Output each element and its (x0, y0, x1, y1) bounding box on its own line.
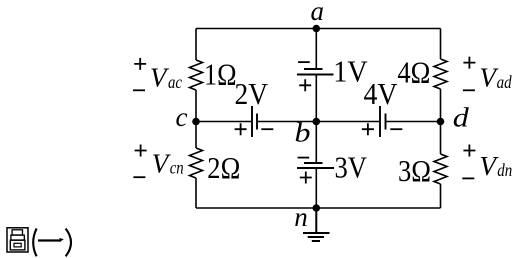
svg-text:d: d (453, 103, 470, 133)
wire c to 2V (196, 121, 252, 123)
wire right bottom (440, 184, 442, 208)
svg-text:dn: dn (497, 160, 512, 180)
svg-text:cn: cn (170, 158, 184, 178)
svg-text:4V: 4V (364, 76, 399, 111)
minus sign 4V battery (390, 128, 402, 130)
minus sign Vac (133, 89, 145, 91)
svg-text:1Ω: 1Ω (204, 57, 237, 92)
svg-text:c: c (176, 102, 188, 132)
resistor R 3ohm (434, 154, 447, 184)
minus sign 1V battery (298, 61, 310, 63)
plus sign Vcn (135, 145, 147, 157)
caption close paren (66, 229, 71, 257)
svg-text:3V: 3V (335, 149, 368, 184)
plus sign Vac (134, 58, 146, 70)
node n dot (313, 204, 321, 212)
wire left middle (195, 90, 197, 148)
minus sign 3V battery (298, 157, 310, 159)
node a dot (313, 25, 321, 33)
wire bottom (196, 207, 441, 209)
wire left branch top (195, 29, 197, 61)
minus sign Vdn (462, 177, 474, 179)
battery 1V plates (297, 69, 334, 75)
wire top (196, 28, 441, 30)
battery 3V plates (297, 163, 334, 168)
resistor R 2ohm (190, 148, 203, 178)
plus sign 4V battery (362, 123, 374, 135)
wire 2V to b (257, 121, 316, 123)
resistor R 1ohm (190, 60, 203, 90)
wire 1V to b (315, 75, 317, 122)
wire b to 4V (316, 121, 380, 123)
plus sign 3V battery (300, 172, 312, 184)
node b dot (313, 118, 321, 126)
wire left bottom (195, 178, 197, 208)
wire right middle (440, 89, 442, 154)
svg-text:V: V (150, 63, 170, 93)
minus sign Vad (463, 89, 475, 91)
plus sign Vdn (463, 145, 475, 157)
svg-text:b: b (295, 118, 311, 148)
svg-text:4Ω: 4Ω (397, 54, 430, 89)
caption glyph tu (figure) (7, 228, 28, 252)
caption open paren (33, 229, 36, 257)
minus sign 2V battery (261, 128, 273, 130)
node d dot (437, 118, 445, 126)
svg-text:2Ω: 2Ω (207, 150, 240, 185)
wire 4V to d (386, 121, 441, 123)
resistor R 4ohm (434, 59, 447, 89)
plus sign 1V battery (299, 79, 311, 91)
plus sign 2V battery (235, 123, 247, 135)
svg-text:ad: ad (497, 72, 512, 92)
wire right branch top (440, 29, 442, 60)
svg-text:n: n (294, 202, 308, 232)
ground at n (303, 208, 330, 241)
plus sign Vad (463, 57, 475, 69)
wire b to 3V (315, 122, 317, 164)
caption dash (one) (38, 239, 61, 241)
wire center a to 1V (315, 29, 317, 70)
minus sign Vcn (133, 176, 145, 178)
node c dot (192, 118, 200, 126)
svg-text:2V: 2V (235, 76, 269, 111)
wire 3V to n (315, 168, 317, 208)
svg-text:3Ω: 3Ω (398, 153, 431, 188)
battery 2V plates (252, 106, 257, 137)
battery 4V plates (380, 106, 386, 137)
svg-text:a: a (311, 0, 325, 26)
svg-text:ac: ac (168, 72, 182, 92)
